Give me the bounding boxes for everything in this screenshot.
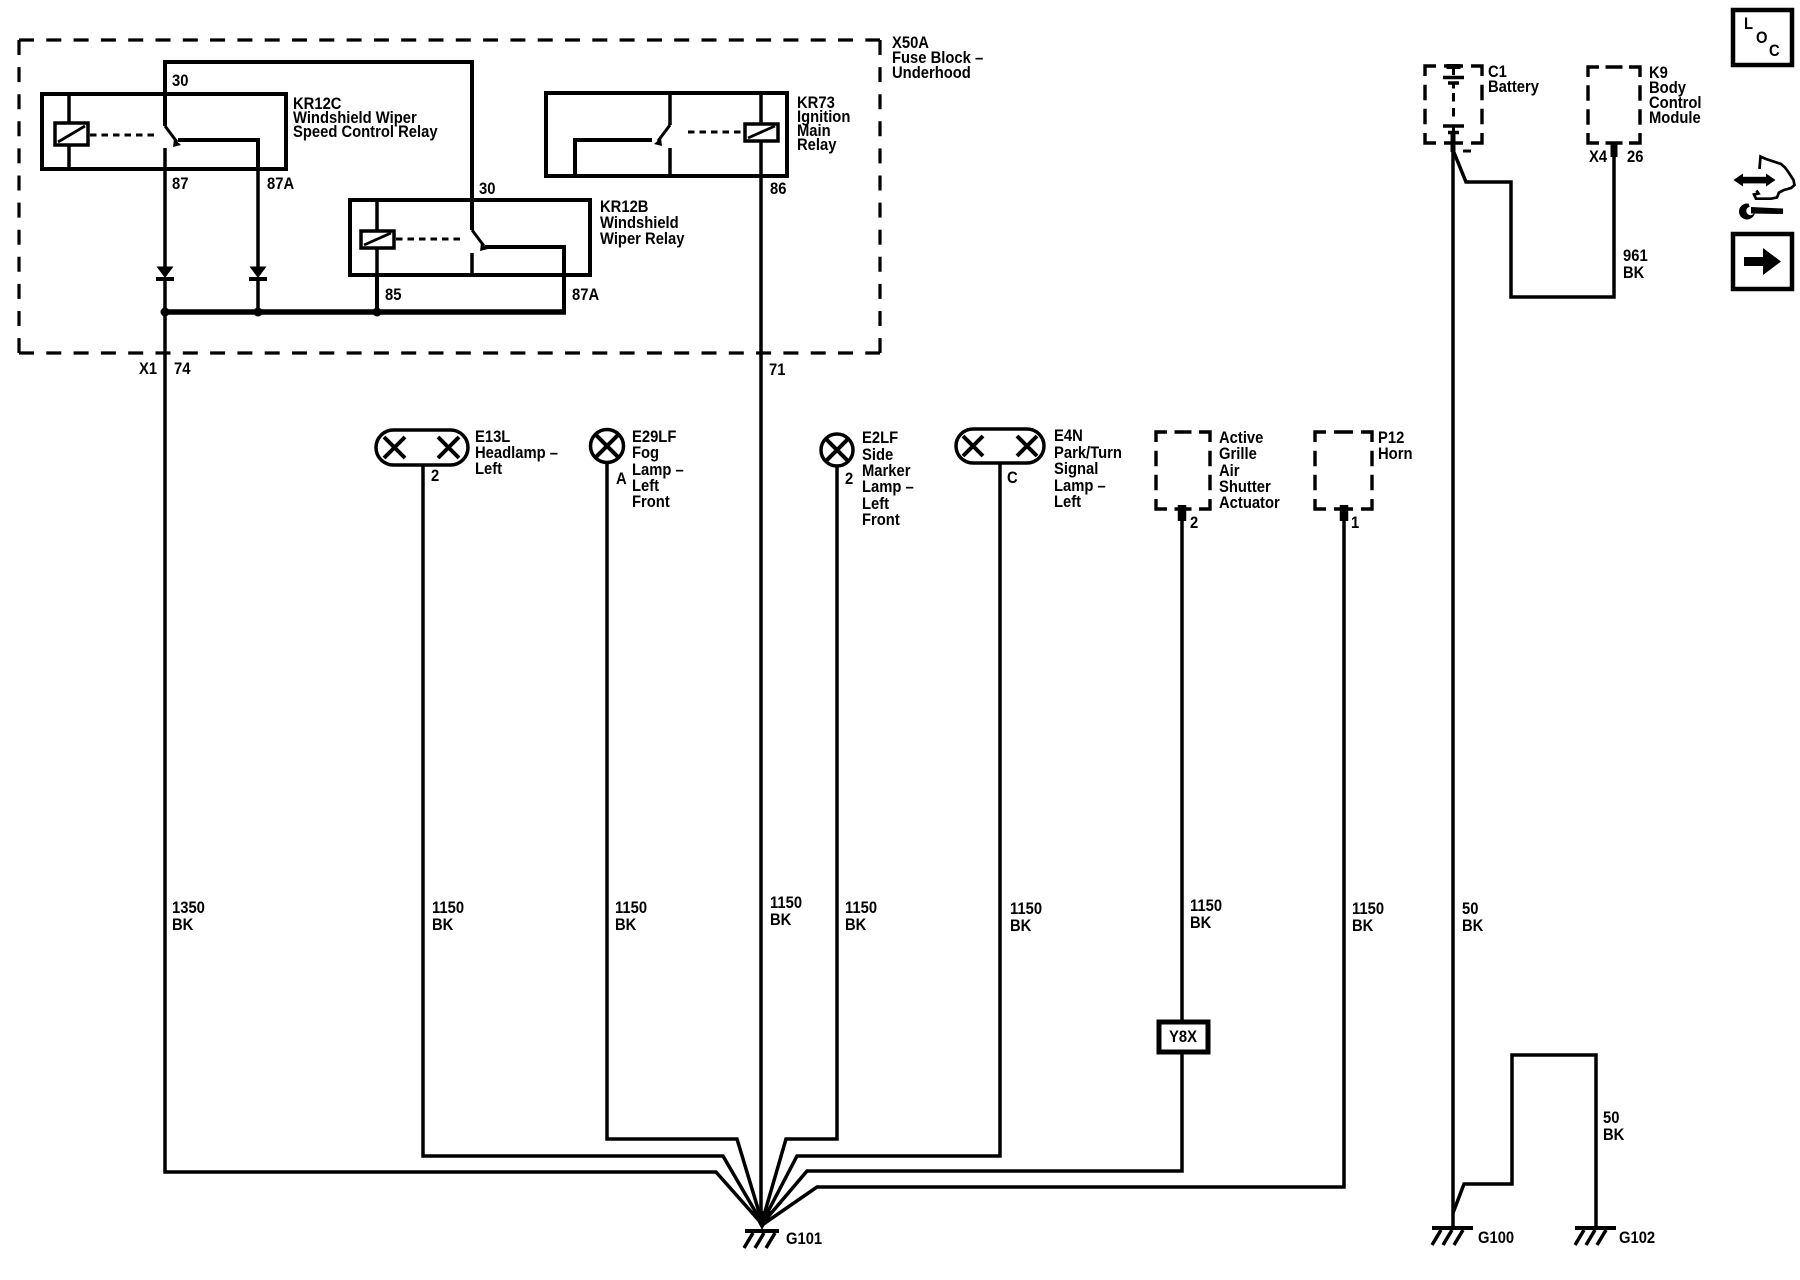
pin label 85: [385, 286, 402, 304]
svg-text:1350: 1350: [172, 899, 205, 917]
KR73 coil-switch dashed link: [688, 131, 743, 134]
body control module K9 dashed box: [1588, 67, 1640, 143]
battery pin stub: [1451, 134, 1456, 152]
svg-text:BK: BK: [432, 916, 454, 934]
svg-text:Grille: Grille: [1219, 445, 1257, 463]
junction dots: [161, 308, 170, 317]
diode D1: [157, 267, 174, 279]
pin label 30 (KR12B): [479, 180, 496, 198]
svg-text:Speed Control Relay: Speed Control Relay: [293, 123, 438, 141]
label E29LF: [632, 428, 684, 511]
pin 2 E2LF: [845, 470, 853, 488]
label C1 Battery: [1488, 63, 1539, 96]
battery C1 dashed box: [1425, 66, 1482, 143]
pin 2 E13L: [431, 467, 439, 485]
svg-text:Front: Front: [862, 511, 900, 529]
KR12C contact 87A: [178, 140, 258, 169]
svg-text:G100: G100: [1478, 1229, 1514, 1247]
ground G100: [1432, 1226, 1473, 1230]
label active grille: [1219, 429, 1280, 512]
svg-text:1150: 1150: [1190, 897, 1222, 915]
KR12B coil: [375, 200, 379, 275]
shutter pin stub: [1178, 505, 1187, 521]
svg-text:71: 71: [769, 361, 786, 379]
battery minus sign: [1463, 150, 1471, 153]
svg-text:Signal: Signal: [1054, 460, 1098, 478]
label E13L: [475, 428, 558, 478]
wire pin30 KR12C to pin30 KR12B: [165, 62, 472, 230]
svg-text:87A: 87A: [572, 286, 600, 304]
label 961 BK: [1623, 247, 1648, 282]
label 1150 BK (horn): [1352, 900, 1384, 935]
label 1150 BK (E2LF): [845, 899, 877, 934]
label 1150 BK (shutter): [1190, 897, 1222, 932]
icon LOC box: [1733, 10, 1792, 65]
wire branch to G102: [1453, 1055, 1596, 1227]
label 1150 BK (E29LF): [615, 899, 647, 934]
KR73 contact 87: [575, 140, 652, 176]
svg-text:74: 74: [174, 360, 191, 378]
lamp E2LF side marker: [821, 434, 853, 466]
svg-text:Underhood: Underhood: [892, 64, 971, 82]
svg-text:Lamp –: Lamp –: [862, 478, 914, 496]
svg-text:Left: Left: [1054, 493, 1082, 511]
lamp E13L headlamp: [376, 430, 468, 465]
svg-text:BK: BK: [845, 916, 867, 934]
svg-text:1150: 1150: [1010, 900, 1042, 918]
connector labels X1 74 71: [139, 360, 786, 379]
svg-text:L: L: [1744, 15, 1753, 33]
relay KR12C box: [42, 94, 286, 169]
bus wire: [163, 309, 566, 315]
lamp E4N park/turn: [956, 429, 1044, 463]
svg-text:X1: X1: [139, 360, 157, 378]
svg-text:Front: Front: [632, 493, 670, 511]
pin label 30 (KR12C): [172, 72, 189, 90]
svg-text:85: 85: [385, 286, 402, 304]
KR73 switch blade: [658, 125, 670, 141]
svg-text:C: C: [1007, 469, 1018, 487]
svg-text:Wiper Relay: Wiper Relay: [600, 230, 685, 248]
wire shutter actuator to G101: [762, 505, 1182, 1224]
svg-text:26: 26: [1627, 148, 1644, 166]
svg-text:Fog: Fog: [632, 444, 659, 462]
active grille air shutter actuator box: [1156, 432, 1210, 509]
wire 1350 BK to G101: [165, 312, 762, 1224]
pin label 87: [172, 175, 189, 193]
icon arrow box: [1733, 234, 1792, 289]
svg-text:2: 2: [431, 467, 439, 485]
diode D2: [250, 267, 267, 279]
svg-text:E2LF: E2LF: [862, 429, 898, 447]
label P12 Horn: [1378, 429, 1412, 463]
wire E4N to G101: [762, 463, 1000, 1223]
KR73 coil: [759, 93, 763, 124]
svg-text:Actuator: Actuator: [1219, 494, 1280, 512]
label X50A Fuse Block Underhood: [892, 34, 983, 82]
ground G102: [1575, 1226, 1616, 1230]
svg-text:2: 2: [1190, 514, 1198, 532]
wire 87A to diode: [256, 169, 260, 267]
pin 2 shutter: [1190, 514, 1198, 532]
label 1150 BK (E4N): [1010, 900, 1042, 935]
wire 961 BK battery to K9: [1453, 150, 1614, 297]
svg-text:X4: X4: [1589, 148, 1607, 166]
label 1150 BK (E13L): [432, 899, 464, 934]
KR12C coil: [67, 94, 71, 169]
label E2LF: [862, 429, 914, 529]
svg-text:1: 1: [1351, 514, 1359, 532]
svg-text:87A: 87A: [267, 175, 295, 193]
label 50 BK (G102): [1603, 1109, 1625, 1144]
svg-text:Y8X: Y8X: [1169, 1028, 1197, 1046]
svg-text:1150: 1150: [845, 899, 877, 917]
svg-text:BK: BK: [615, 916, 637, 934]
svg-text:30: 30: [479, 180, 496, 198]
label 50 BK (battery): [1462, 900, 1484, 935]
label KR12C: [293, 95, 438, 141]
battery symbol: [1447, 64, 1461, 69]
lamp E29LF fog: [591, 430, 624, 463]
KR12C contact 87 stub: [163, 148, 167, 169]
svg-text:BK: BK: [1352, 917, 1374, 935]
pin label 87A (KR12B): [572, 286, 600, 304]
wire E13L to G101: [423, 465, 762, 1223]
svg-text:BK: BK: [1010, 917, 1032, 935]
svg-text:961: 961: [1623, 247, 1648, 265]
label 1350 BK: [172, 899, 205, 934]
svg-text:87: 87: [172, 175, 189, 193]
svg-text:BK: BK: [1603, 1126, 1625, 1144]
svg-text:BK: BK: [770, 911, 792, 929]
svg-text:1150: 1150: [770, 894, 802, 912]
pin 1 horn: [1351, 514, 1359, 532]
svg-text:1150: 1150: [615, 899, 647, 917]
label 1150 BK (KR73): [770, 894, 802, 929]
svg-text:Module: Module: [1649, 109, 1701, 127]
icon wrench: [1739, 204, 1755, 220]
pin labels X4 26: [1589, 148, 1644, 166]
svg-text:Relay: Relay: [797, 136, 837, 154]
pin label 86: [770, 180, 787, 198]
svg-text:C: C: [1769, 42, 1780, 60]
svg-text:G102: G102: [1619, 1229, 1655, 1247]
KR12B coil-switch dashed link: [396, 238, 460, 241]
svg-text:BK: BK: [1190, 914, 1212, 932]
horn P12 box: [1315, 432, 1372, 509]
svg-text:E4N: E4N: [1054, 427, 1083, 445]
KR12B pivot lower stub: [470, 253, 474, 275]
svg-text:BK: BK: [172, 916, 194, 934]
label E4N: [1054, 427, 1122, 511]
wire 50 BK battery to G100: [1451, 143, 1455, 1227]
KR12C coil-switch dashed link: [90, 134, 158, 137]
label KR73: [797, 94, 850, 154]
wire P12 horn to G101: [762, 505, 1344, 1225]
wire KR73 86/71 to G101: [759, 141, 763, 1224]
KR12B switch blade: [472, 230, 484, 246]
horn pin stub: [1340, 505, 1349, 521]
pin C E4N: [1007, 469, 1018, 487]
KR12B pin 85 wire to bus: [375, 275, 379, 312]
fuse block X50A dashed border: [19, 38, 880, 41]
svg-text:1150: 1150: [1352, 900, 1384, 918]
icon vehicle outline with arrow: [1754, 157, 1795, 199]
KR12C switch blade: [165, 126, 177, 142]
svg-text:50: 50: [1462, 900, 1479, 918]
svg-text:30: 30: [172, 72, 189, 90]
svg-text:Left: Left: [475, 460, 503, 478]
wire 87 to diode: [163, 169, 167, 267]
relay KR73 box: [546, 93, 787, 176]
svg-text:O: O: [1756, 29, 1768, 47]
label KR12B: [600, 198, 685, 248]
K9 pin stub: [1611, 142, 1618, 157]
svg-text:86: 86: [770, 180, 787, 198]
pin A E29LF: [616, 470, 627, 488]
svg-text:BK: BK: [1623, 264, 1645, 282]
wire E29LF to G101: [607, 462, 762, 1222]
KR73 pivot line: [668, 93, 672, 176]
label K9 BCM: [1649, 64, 1702, 127]
relay KR12B box: [350, 200, 590, 275]
svg-text:Battery: Battery: [1488, 78, 1539, 96]
svg-text:BK: BK: [1462, 917, 1484, 935]
svg-text:G101: G101: [786, 1230, 822, 1248]
wire E2LF to G101: [762, 466, 837, 1222]
svg-text:2: 2: [845, 470, 853, 488]
svg-text:A: A: [616, 470, 627, 488]
svg-text:Horn: Horn: [1378, 445, 1412, 463]
svg-text:50: 50: [1603, 1109, 1620, 1127]
pin label 87A (KR12C): [267, 175, 295, 193]
KR12B contact 87A wire to bus: [485, 247, 564, 312]
ground G101: [752, 1211, 772, 1230]
connector Y8X: [1159, 1022, 1208, 1052]
svg-text:1150: 1150: [432, 899, 464, 917]
